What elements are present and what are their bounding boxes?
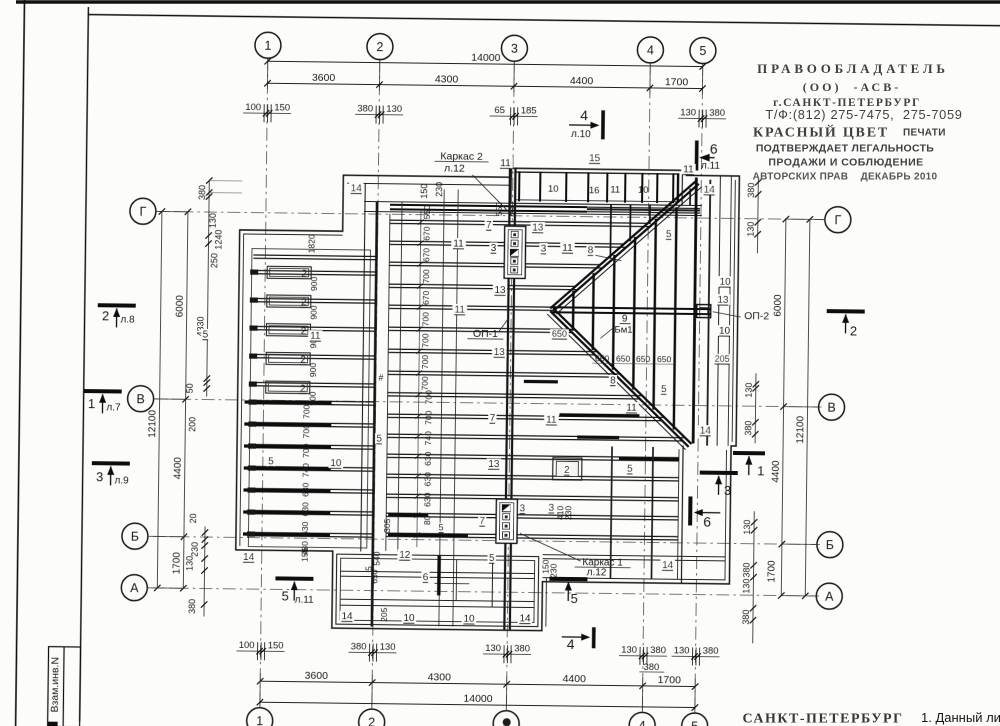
svg-text:л.10: л.10 — [571, 129, 591, 140]
svg-text:230: 230 — [563, 506, 573, 521]
svg-text:630: 630 — [422, 492, 432, 507]
svg-text:150: 150 — [268, 640, 284, 651]
svg-text:5: 5 — [691, 719, 698, 726]
svg-text:900: 900 — [309, 305, 319, 320]
svg-text:15: 15 — [589, 153, 601, 164]
svg-text:А: А — [130, 581, 139, 595]
svg-text:ПРАВООБЛАДАТЕЛЬ: ПРАВООБЛАДАТЕЛЬ — [757, 61, 949, 76]
svg-text:12100: 12100 — [795, 415, 806, 443]
svg-text:л.12: л.12 — [444, 162, 465, 174]
svg-text:380: 380 — [357, 103, 373, 114]
svg-text:100: 100 — [239, 640, 255, 651]
svg-text:ОП-1: ОП-1 — [473, 328, 498, 340]
svg-text:3: 3 — [548, 503, 554, 514]
svg-text:11: 11 — [562, 243, 573, 254]
svg-text:630: 630 — [423, 451, 433, 466]
svg-text:А: А — [825, 590, 834, 604]
svg-text:6: 6 — [710, 141, 718, 157]
svg-text:480: 480 — [300, 541, 310, 556]
svg-text:630: 630 — [300, 482, 310, 497]
svg-text:л.9: л.9 — [114, 475, 129, 486]
svg-text:380: 380 — [709, 108, 725, 119]
svg-text:1240: 1240 — [213, 230, 223, 250]
svg-text:3600: 3600 — [304, 670, 328, 682]
svg-text:130: 130 — [674, 645, 690, 656]
svg-text:В: В — [827, 401, 836, 415]
svg-text:Взам.инв.N: Взам.инв.N — [49, 657, 62, 713]
svg-text:4400: 4400 — [570, 75, 594, 87]
svg-text:3600: 3600 — [312, 72, 336, 84]
svg-text:205: 205 — [715, 354, 730, 364]
svg-text:11: 11 — [453, 239, 464, 250]
svg-text:6: 6 — [703, 514, 711, 530]
svg-text:700: 700 — [424, 390, 434, 405]
frame detail Каркас 2 — [504, 226, 526, 278]
svg-text:380: 380 — [741, 563, 751, 578]
svg-text:630: 630 — [423, 472, 433, 487]
svg-text:670: 670 — [422, 226, 432, 241]
opening ОП-2 — [697, 305, 711, 318]
svg-text:670: 670 — [421, 290, 431, 305]
svg-text:380: 380 — [197, 185, 207, 200]
hip studs spacing 650 — [572, 291, 575, 331]
svg-text:5: 5 — [268, 456, 274, 467]
svg-text:3: 3 — [96, 469, 103, 484]
building eave outline — [235, 165, 740, 633]
svg-text:4: 4 — [567, 636, 575, 652]
svg-text:380: 380 — [746, 183, 756, 198]
svg-text:4: 4 — [639, 719, 646, 726]
svg-text:13: 13 — [532, 223, 544, 234]
svg-text:Каркас 2: Каркас 2 — [440, 150, 483, 163]
svg-text:2: 2 — [300, 355, 306, 366]
svg-text:13: 13 — [717, 295, 729, 306]
grid bubbles Г В Б А right — [825, 207, 851, 233]
svg-text:1700: 1700 — [171, 552, 182, 575]
svg-text:200: 200 — [187, 417, 197, 432]
svg-text:Бм1: Бм1 — [614, 325, 632, 336]
svg-text:4: 4 — [647, 43, 654, 57]
svg-text:740: 740 — [301, 463, 311, 478]
svg-text:185: 185 — [521, 105, 537, 116]
svg-text:380: 380 — [741, 610, 751, 625]
main block left wall — [361, 183, 365, 551]
svg-text:14: 14 — [341, 611, 353, 622]
svg-text:650: 650 — [636, 354, 651, 364]
svg-text:3: 3 — [519, 503, 525, 514]
svg-text:5: 5 — [203, 329, 209, 340]
left dimension chains 12100/6000/4400/1700 — [157, 211, 162, 587]
svg-text:12100: 12100 — [147, 409, 158, 437]
grid bubbles Г В Б А left — [130, 198, 156, 224]
svg-text:700: 700 — [421, 312, 431, 327]
svg-text:80: 80 — [422, 515, 432, 525]
svg-text:650: 650 — [595, 353, 610, 363]
svg-text:65: 65 — [494, 105, 505, 116]
svg-text:11: 11 — [626, 403, 637, 414]
svg-text:7: 7 — [479, 516, 485, 527]
svg-text:(ОО) -АСВ-: (ОО) -АСВ- — [803, 80, 901, 94]
svg-text:900: 900 — [309, 276, 319, 291]
svg-text:630: 630 — [300, 502, 310, 517]
svg-text:205: 205 — [379, 607, 389, 622]
svg-text:1. Данный лист: 1. Данный лист — [921, 710, 1000, 725]
svg-text:5: 5 — [439, 522, 444, 532]
svg-text:4400: 4400 — [562, 673, 586, 685]
section marks 1,2,3,5,6 — [98, 303, 136, 307]
svg-text:380: 380 — [743, 421, 753, 436]
svg-text:230: 230 — [434, 182, 444, 197]
outer page edge left — [16, 0, 25, 726]
svg-text:Б: Б — [826, 538, 834, 552]
svg-text:900: 900 — [308, 391, 318, 406]
svg-text:2: 2 — [102, 308, 109, 323]
svg-text:740: 740 — [423, 431, 433, 446]
svg-text:л.11: л.11 — [295, 595, 315, 606]
svg-text:2: 2 — [850, 323, 857, 338]
svg-text:550: 550 — [422, 205, 432, 220]
top strip pos.15 with studs — [681, 445, 683, 583]
svg-text:3: 3 — [541, 244, 547, 255]
svg-text:700: 700 — [423, 410, 433, 425]
svg-text:11: 11 — [310, 331, 321, 342]
right dimension chains 12100/6000/4400/1700 — [805, 219, 810, 595]
svg-text:10: 10 — [638, 185, 649, 196]
svg-text:1700: 1700 — [665, 76, 689, 88]
svg-text:700: 700 — [420, 333, 430, 348]
svg-text:11: 11 — [610, 184, 620, 195]
svg-text:130: 130 — [742, 520, 752, 535]
svg-text:5: 5 — [364, 566, 374, 571]
svg-text:230: 230 — [548, 563, 558, 578]
svg-text:Б: Б — [131, 530, 139, 544]
title block: Взам.инв.N box — [48, 647, 81, 726]
svg-text:ПЕЧАТИ: ПЕЧАТИ — [903, 128, 946, 139]
svg-text:2: 2 — [301, 297, 307, 308]
svg-text:380: 380 — [643, 662, 659, 673]
svg-text:13: 13 — [494, 285, 506, 296]
grid bubbles 1-5 top, dimension chains 14000/3600/4300/4400/1700 — [255, 32, 281, 58]
svg-text:380: 380 — [351, 641, 367, 652]
svg-text:10: 10 — [548, 184, 559, 195]
svg-text:1700: 1700 — [657, 674, 681, 686]
svg-text:2: 2 — [301, 269, 307, 280]
svg-text:130: 130 — [386, 104, 402, 115]
svg-text:4400: 4400 — [173, 457, 184, 480]
svg-text:50: 50 — [185, 383, 195, 393]
svg-text:3: 3 — [491, 243, 497, 254]
svg-text:130: 130 — [185, 556, 195, 571]
svg-text:130: 130 — [380, 642, 396, 653]
joists left wing pos.10 — [253, 255, 376, 257]
svg-text:л.8: л.8 — [120, 314, 135, 325]
svg-text:14: 14 — [700, 426, 712, 437]
svg-text:2: 2 — [564, 465, 570, 476]
svg-text:550: 550 — [494, 202, 504, 217]
doubled joist reinforcements — [245, 402, 332, 403]
svg-text:1820: 1820 — [306, 234, 316, 253]
svg-text:14000: 14000 — [471, 52, 501, 64]
svg-text:10: 10 — [719, 277, 731, 288]
hip rafters pos.8 — [550, 179, 696, 310]
main block right wall and eave — [707, 180, 710, 446]
svg-text:14: 14 — [704, 185, 716, 196]
svg-text:11: 11 — [546, 415, 557, 426]
svg-text:630: 630 — [300, 521, 310, 536]
svg-text:7: 7 — [490, 413, 496, 424]
svg-text:380: 380 — [650, 645, 666, 656]
svg-text:150: 150 — [419, 184, 429, 199]
svg-text:380: 380 — [514, 643, 530, 654]
wing openings pos.2 spacing 900 — [267, 266, 311, 279]
svg-text:13: 13 — [494, 347, 506, 358]
svg-text:2: 2 — [300, 383, 306, 394]
svg-text:700: 700 — [301, 424, 311, 439]
svg-text:4300: 4300 — [427, 671, 451, 683]
svg-text:1700: 1700 — [766, 560, 777, 583]
svg-text:700: 700 — [421, 269, 431, 284]
joists main block pos.11 — [390, 220, 649, 223]
svg-text:5: 5 — [627, 464, 633, 475]
svg-text:ПРОДАЖИ И СОБЛЮДЕНИЕ: ПРОДАЖИ И СОБЛЮДЕНИЕ — [768, 157, 923, 169]
svg-text:2: 2 — [368, 716, 375, 726]
svg-text:700: 700 — [420, 355, 430, 370]
svg-text:11: 11 — [454, 305, 465, 316]
section mark 6 л.11 — [695, 141, 699, 171]
svg-text:4: 4 — [580, 107, 588, 123]
svg-text:5: 5 — [282, 588, 289, 603]
svg-text:14: 14 — [662, 560, 674, 571]
svg-text:670: 670 — [421, 248, 431, 263]
opening pos.2 — [553, 458, 582, 480]
svg-text:12: 12 — [399, 550, 411, 561]
svg-text:650: 650 — [616, 354, 631, 364]
svg-text:14: 14 — [243, 552, 255, 563]
svg-text:8: 8 — [610, 375, 616, 386]
svg-text:130: 130 — [741, 579, 751, 594]
svg-text:130: 130 — [744, 383, 754, 398]
svg-text:5: 5 — [666, 229, 672, 240]
svg-text:ПОДТВЕРЖДАЕТ ЛЕГАЛЬНОСТЬ: ПОДТВЕРЖДАЕТ ЛЕГАЛЬНОСТЬ — [756, 143, 934, 155]
svg-text:4300: 4300 — [435, 73, 459, 85]
svg-text:700: 700 — [420, 376, 430, 391]
svg-text:10: 10 — [330, 458, 342, 469]
svg-text:305: 305 — [382, 518, 392, 533]
ridge beam pos.9 Бм1 — [552, 307, 711, 309]
svg-text:Г: Г — [834, 213, 841, 227]
grid axis centerlines 1-5 and Г,В,Б,А — [260, 57, 268, 707]
section mark 4 л.10 — [601, 110, 605, 139]
svg-text:130: 130 — [208, 213, 218, 228]
bottom grid bubbles and dimension chains — [237, 650, 285, 653]
svg-text:10: 10 — [403, 613, 415, 624]
svg-text:14000: 14000 — [463, 693, 493, 705]
svg-text:14: 14 — [351, 183, 363, 194]
svg-text:5: 5 — [376, 434, 382, 445]
svg-text:650: 650 — [552, 329, 567, 339]
svg-text:л.7: л.7 — [106, 402, 121, 413]
svg-text:700: 700 — [301, 404, 311, 419]
svg-text:КРАСНЫЙ ЦВЕТ: КРАСНЫЙ ЦВЕТ — [753, 124, 889, 141]
svg-text:1: 1 — [88, 396, 95, 411]
copyright stamp — [753, 61, 963, 183]
svg-text:1: 1 — [256, 714, 263, 726]
svg-text:1: 1 — [264, 39, 271, 53]
svg-text:20: 20 — [188, 513, 198, 523]
svg-text:16: 16 — [589, 185, 600, 196]
svg-text:2: 2 — [301, 326, 307, 337]
svg-text:4400: 4400 — [771, 460, 782, 483]
svg-text:380: 380 — [187, 599, 197, 614]
svg-text:10: 10 — [463, 614, 475, 625]
svg-text:11: 11 — [500, 158, 511, 169]
svg-text:3: 3 — [511, 42, 518, 56]
frame detail Каркас 1 — [496, 499, 518, 543]
svg-text:6: 6 — [423, 572, 429, 583]
svg-text:130: 130 — [485, 643, 501, 654]
svg-text:3: 3 — [724, 483, 731, 498]
svg-text:В: В — [136, 392, 145, 406]
svg-text:САНКТ-ПЕТЕРБУРГ: САНКТ-ПЕТЕРБУРГ — [742, 712, 903, 726]
top wall beam — [364, 201, 702, 205]
svg-text:900: 900 — [308, 363, 318, 378]
svg-text:10: 10 — [719, 326, 731, 337]
svg-text:Т/Ф:(812) 275-7475, 275-7059: Т/Ф:(812) 275-7475, 275-7059 — [765, 107, 962, 122]
svg-text:л.11: л.11 — [701, 161, 721, 172]
svg-text:5: 5 — [699, 44, 706, 58]
svg-text:150: 150 — [274, 102, 290, 113]
svg-text:2: 2 — [376, 40, 383, 54]
svg-text:Г: Г — [139, 205, 146, 219]
svg-text:650: 650 — [657, 354, 672, 364]
svg-text:8: 8 — [588, 245, 594, 256]
lower right wing, label Каркас 1 л.12 — [543, 555, 726, 557]
svg-text:6000: 6000 — [773, 294, 784, 317]
svg-text:11: 11 — [683, 164, 694, 175]
svg-text:7: 7 — [486, 220, 492, 231]
svg-text:ОП-2: ОП-2 — [744, 310, 769, 322]
svg-text:100: 100 — [245, 102, 261, 113]
svg-text:1: 1 — [757, 463, 764, 478]
svg-text:380: 380 — [703, 646, 719, 657]
svg-text:л.12: л.12 — [587, 567, 607, 578]
svg-text:9: 9 — [622, 314, 628, 325]
svg-text:АВТОРСКИХ ПРАВ ДЕКАБРЬ 2010: АВТОРСКИХ ПРАВ ДЕКАБРЬ 2010 — [753, 172, 938, 183]
svg-text:14: 14 — [519, 613, 531, 624]
center beam ОП-1 on grid 3 — [504, 168, 510, 630]
bottom extension wing — [336, 554, 539, 626]
svg-text:230: 230 — [190, 542, 200, 557]
svg-text:5: 5 — [489, 553, 495, 564]
svg-text:6000: 6000 — [175, 295, 186, 318]
position labels main block — [485, 219, 493, 230]
svg-text:130: 130 — [621, 645, 637, 656]
wing top eave — [240, 230, 343, 231]
svg-text:250: 250 — [209, 253, 219, 268]
svg-text:130: 130 — [746, 222, 756, 237]
section mark 4 bottom — [592, 627, 596, 648]
svg-text:13: 13 — [488, 459, 500, 470]
svg-text:#: # — [378, 373, 383, 383]
svg-text:130: 130 — [680, 107, 696, 118]
svg-text:700: 700 — [301, 443, 311, 458]
svg-text:5: 5 — [661, 384, 667, 395]
svg-text:5: 5 — [571, 591, 578, 606]
